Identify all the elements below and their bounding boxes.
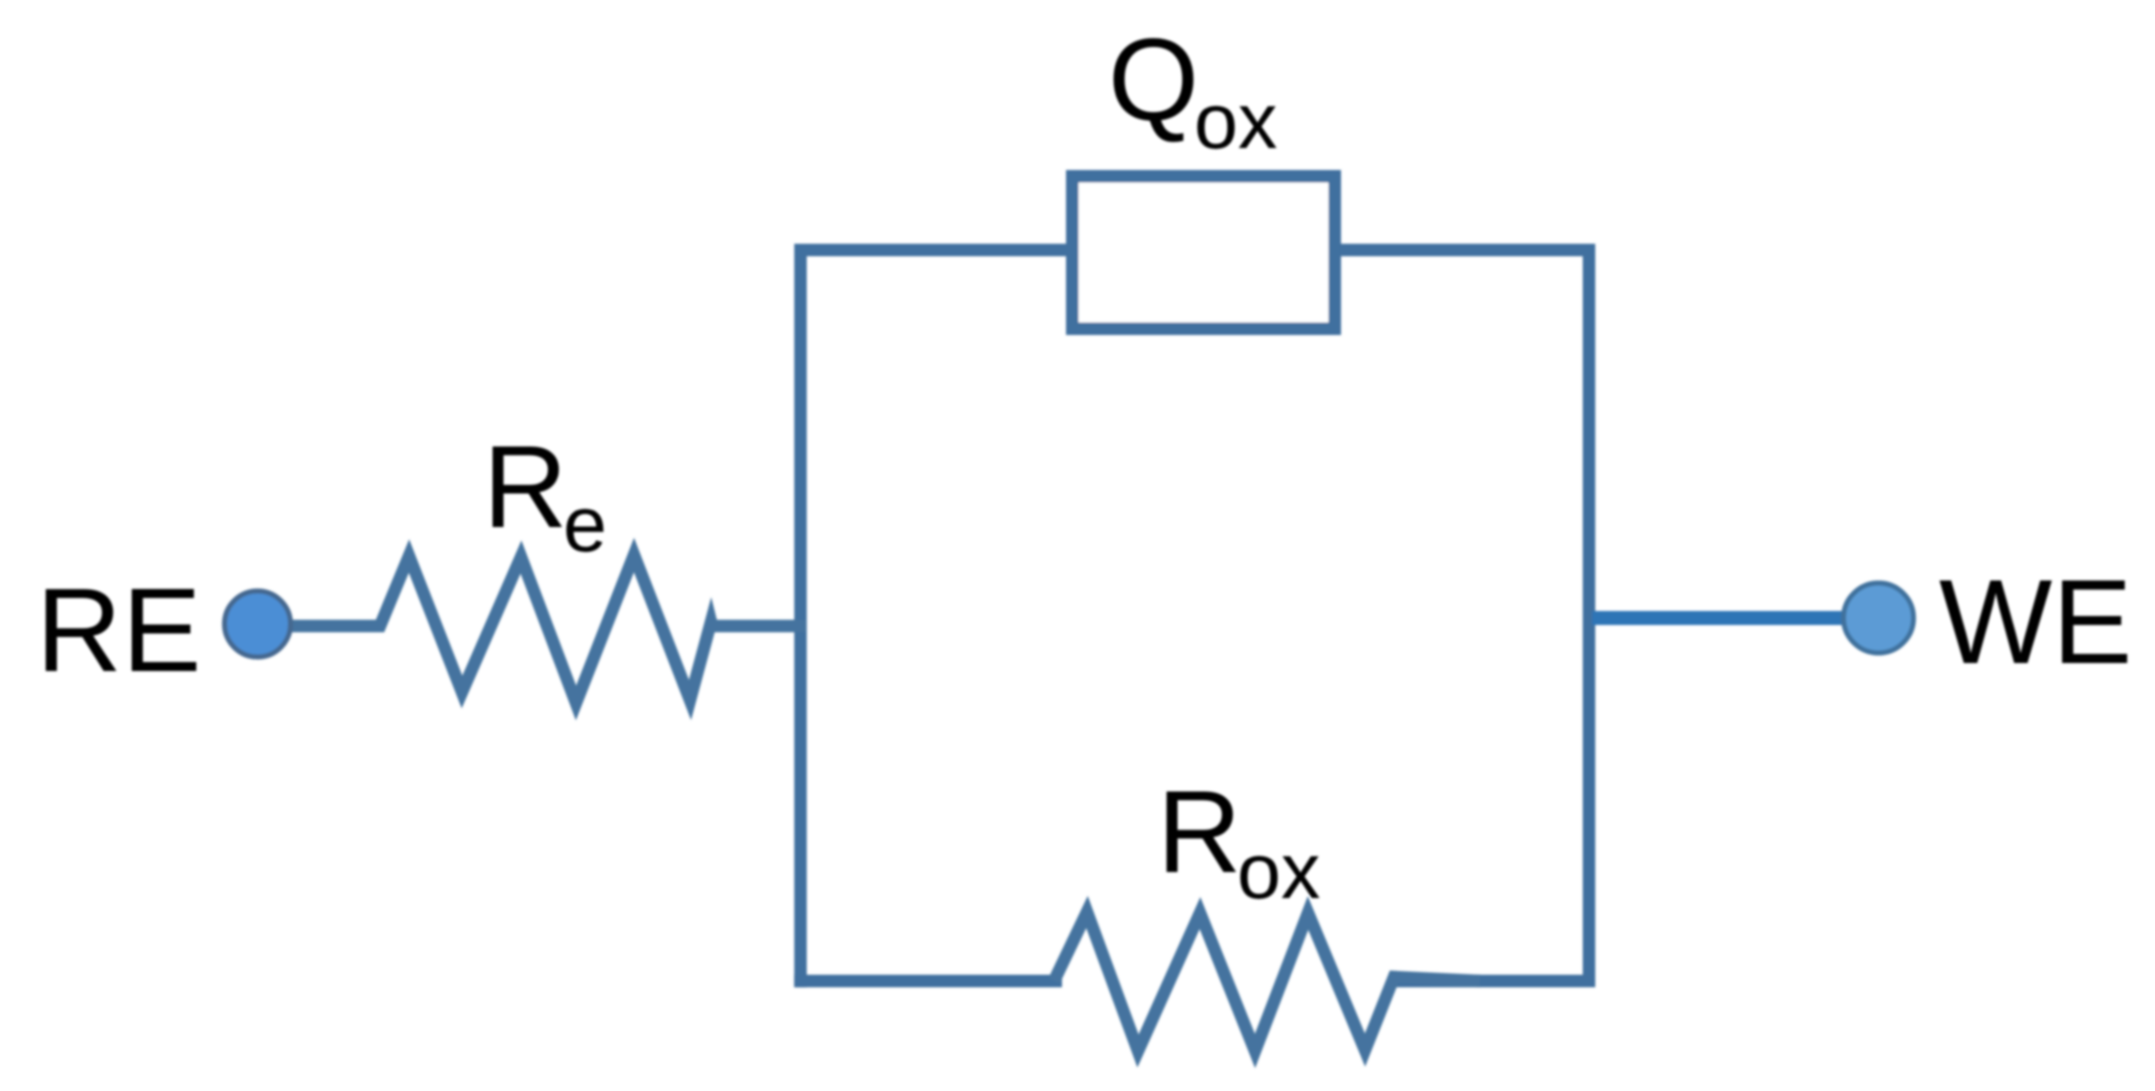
svg-text:ox: ox [1237, 826, 1320, 915]
wire: WE lead [1592, 611, 1848, 625]
node RE terminal dot [225, 591, 291, 657]
svg-text:R: R [483, 421, 568, 552]
capacitor Q1 (CPE Qox box) [1072, 176, 1335, 329]
svg-text:Q: Q [1108, 14, 1199, 145]
svg-text:WE: WE [1939, 555, 2132, 689]
svg-text:e: e [563, 479, 607, 568]
svg-text:RE: RE [36, 564, 201, 697]
wire: bottom-left rail segment [794, 975, 1062, 988]
resistor Rox (zigzag) [1054, 912, 1480, 1051]
svg-text:ox: ox [1194, 76, 1277, 165]
node WE terminal dot [1844, 583, 1914, 653]
svg-text:R: R [1157, 766, 1242, 897]
resistor Re (zigzag with leads) [285, 555, 806, 703]
wire: parallel loop (left vertical, top rail, right vertical, bottom-right rail) [801, 250, 1590, 987]
